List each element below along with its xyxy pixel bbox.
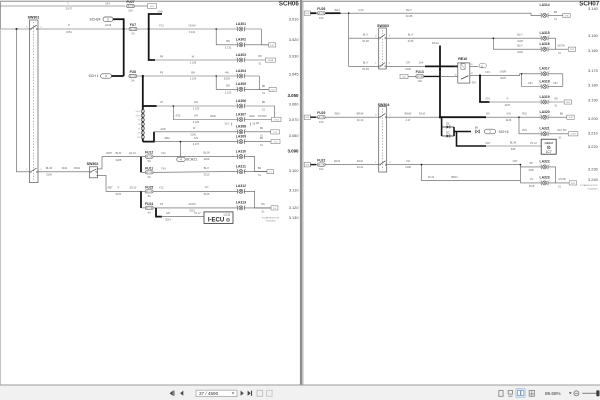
svg-text:2: 2 (540, 164, 541, 166)
svg-text:2: 2 (540, 71, 541, 73)
terminal 31 oval (479, 64, 486, 69)
svg-text:P: P (118, 185, 120, 189)
svg-text:1: 1 (549, 180, 550, 182)
connector box LA307 term (272, 117, 282, 121)
wire LA305 out (244, 88, 268, 90)
svg-text:SW301: SW301 (28, 16, 40, 20)
svg-text:HY: HY (160, 100, 164, 104)
connector box LA321 term (568, 132, 578, 136)
svg-text:RB7: RB7 (108, 186, 113, 189)
toolbar prev-page button (180, 391, 183, 396)
svg-text:GR: GR (194, 100, 198, 104)
svg-text:1: 1 (549, 164, 550, 166)
svg-text:3.050: 3.050 (288, 93, 300, 98)
lamp LA314 (540, 3, 550, 18)
svg-text:3.140: 3.140 (588, 6, 599, 11)
svg-text:RED: RED (249, 115, 254, 118)
svg-text:30-38: 30-38 (362, 39, 369, 43)
svg-text:F/CAB NON POS: F/CAB NON POS (580, 184, 598, 187)
svg-text:BN: BN (226, 39, 230, 43)
wire LA309 out (244, 141, 271, 143)
wire bus DA1A (439, 46, 441, 118)
svg-text:0.102: 0.102 (189, 30, 196, 34)
svg-text:5A: 5A (148, 159, 151, 163)
svg-text:2: 2 (540, 47, 541, 49)
svg-text:PA61: PA61 (74, 166, 81, 170)
svg-text:3108: 3108 (405, 165, 411, 169)
wire LA306 out (244, 106, 274, 117)
svg-text:3.170: 3.170 (588, 68, 599, 73)
svg-text:2: 2 (540, 36, 541, 38)
wire branch to SW303 (348, 13, 350, 66)
svg-text:S6.7: S6.7 (252, 123, 258, 126)
connector box X06 fu26 (304, 11, 310, 15)
wire bus to diodes (440, 117, 442, 136)
wire LA310 out (244, 157, 267, 172)
wire SW303 c1 in (349, 37, 379, 39)
svg-text:1: 1 (245, 73, 246, 75)
wire FU13 to RE10 (424, 75, 440, 77)
svg-text:1: 1 (549, 84, 550, 86)
wire RE10 87 out (470, 74, 541, 76)
svg-text:30-39: 30-39 (362, 67, 369, 71)
svg-text:37 / 4590: 37 / 4590 (199, 391, 219, 396)
svg-text:2.106: 2.106 (190, 61, 197, 65)
svg-text:FU22: FU22 (317, 159, 325, 163)
svg-text:1: 1 (549, 47, 550, 49)
svg-text:2.107: 2.107 (193, 142, 200, 146)
junction junction LA321 branch (518, 116, 520, 118)
svg-text:1: 1 (245, 42, 246, 44)
svg-text:E10A: E10A (224, 77, 230, 80)
svg-text:R23: R23 (522, 128, 527, 132)
lamp LA308 (236, 125, 246, 135)
svg-text:VO: VO (406, 159, 410, 163)
svg-text:31B: 31B (565, 15, 569, 17)
svg-text:FE7: FE7 (528, 82, 533, 85)
wire LA302 in branch (216, 29, 237, 45)
wire LA304 out (244, 76, 268, 89)
wire jog to LA322 (519, 165, 521, 183)
connector box X06 fu22 (304, 163, 310, 167)
svg-text:0151: 0151 (66, 30, 72, 34)
svg-text:GN: GN (194, 136, 198, 140)
svg-text:F15: F15 (485, 70, 490, 74)
wire LA303 out (244, 59, 265, 61)
wire FU13 to RE10 b (440, 75, 458, 77)
lamp LA306 (236, 99, 246, 109)
svg-text:1: 1 (245, 189, 246, 191)
svg-text:AA46: AA46 (105, 23, 112, 27)
connector box X06 fu29 (304, 115, 310, 119)
svg-text:LA304: LA304 (236, 69, 246, 73)
wire LA316 out (548, 48, 568, 50)
svg-text:3.020: 3.020 (289, 37, 300, 42)
svg-text:2-W2: 2-W2 (571, 134, 577, 136)
svg-text:GN/TB: GN/TB (558, 178, 566, 181)
wire LA305 in branch (216, 76, 237, 89)
svg-text:30-30: 30-30 (357, 118, 364, 122)
svg-text:10A: 10A (417, 79, 422, 83)
svg-text:2: 2 (236, 73, 237, 75)
svg-text:F16: F16 (485, 96, 490, 100)
toolbar first-page button (170, 391, 174, 396)
wire SW303 c2 out thin (386, 65, 425, 67)
svg-text:3.030: 3.030 (289, 54, 300, 59)
svg-text:2: 2 (236, 139, 237, 141)
svg-text:R22: R22 (522, 112, 527, 116)
connector box LA308 term (271, 130, 280, 134)
svg-text:31B: 31B (571, 183, 575, 185)
svg-text:GR: GR (166, 211, 170, 215)
wire branch low (422, 165, 521, 181)
toolbar last-page button (248, 391, 252, 396)
lamp LA307 (236, 112, 246, 122)
svg-text:SCH 1: SCH 1 (89, 74, 99, 78)
wire net P 0151 (1, 28, 30, 30)
svg-text:2-67: 2-67 (270, 45, 275, 47)
svg-text:BL/Y: BL/Y (204, 166, 210, 170)
fuse FU26 (317, 7, 325, 20)
wire SW303 c2 in (349, 65, 379, 67)
svg-text:LA312: LA312 (236, 184, 246, 188)
svg-text:S6.2: S6.2 (225, 123, 231, 126)
lamp LA319 (540, 95, 550, 105)
svg-text:3.160: 3.160 (588, 48, 599, 53)
svg-text:3209: 3209 (204, 157, 210, 161)
lamp LA315 (540, 31, 550, 41)
reference oval SCH21 num (177, 157, 186, 161)
connector box LA311 term (267, 170, 274, 174)
svg-text:1: 1 (549, 36, 550, 38)
svg-text:BB14: BB14 (451, 176, 458, 179)
wire FU22 out (326, 164, 379, 166)
wire edge to FU29 (310, 116, 316, 118)
wire net 0B2 to LA309 (154, 141, 238, 143)
svg-text:E4.15: E4.15 (129, 152, 136, 155)
svg-text:3914: 3914 (334, 8, 340, 12)
svg-text:BL/Y: BL/Y (363, 61, 369, 65)
fuse FU27 (126, 0, 134, 13)
svg-text:BN: BN (486, 113, 490, 116)
svg-text:6A: 6A (148, 211, 151, 215)
svg-text:LC7: LC7 (546, 150, 552, 154)
junction junction bus2-w2 (148, 28, 150, 30)
svg-text:V1000050: V1000050 (266, 221, 277, 223)
fuse FU13 (416, 70, 424, 83)
svg-text:2A4: 2A4 (419, 61, 424, 65)
wire edge to FU22 (310, 164, 316, 166)
svg-text:BN: BN (261, 203, 265, 206)
junction junction LA306 branch (173, 105, 175, 107)
wire SW303 c2 out thick (425, 65, 459, 67)
svg-text:LA301: LA301 (236, 22, 246, 26)
toolbar next-page button (241, 391, 244, 396)
svg-text:31B: 31B (569, 117, 573, 119)
wire SCH1 to bus1 (112, 75, 124, 77)
svg-text:0B2: 0B2 (164, 136, 170, 140)
reference oval SCH24 (103, 17, 113, 21)
svg-text:2: 2 (236, 26, 237, 28)
wire FU8 out to LA304 (137, 75, 238, 77)
wire SW304 c1 out (387, 116, 440, 118)
svg-text:GN/W: GN/W (188, 23, 196, 27)
connector box LA305 term (269, 87, 276, 91)
junction junction F16 (479, 74, 481, 76)
svg-text:LA310: LA310 (236, 149, 246, 153)
svg-text:GN/W: GN/W (188, 202, 196, 206)
junction junction w2 (16, 28, 18, 30)
wire FU27 to box (135, 5, 148, 7)
ECU box I-ECU LC12 (204, 212, 233, 224)
svg-text:BL/Y: BL/Y (408, 33, 414, 37)
wire edge to FU26 (310, 12, 316, 14)
svg-text:BL/R: BL/R (116, 151, 122, 155)
svg-text:1: 1 (245, 26, 246, 28)
svg-text:3.045: 3.045 (289, 72, 299, 77)
svg-text:3725: 3725 (408, 39, 414, 43)
svg-text:5A: 5A (131, 79, 134, 83)
wire to SCH6 (454, 131, 471, 133)
svg-text:2: 2 (236, 169, 237, 171)
svg-text:3.190: 3.190 (588, 97, 599, 102)
svg-text:1: 1 (549, 115, 550, 117)
svg-text:FU7: FU7 (130, 23, 136, 27)
svg-text:3.100: 3.100 (289, 168, 300, 173)
wire net to LA320 (486, 116, 541, 118)
svg-text:2: 2 (540, 99, 541, 101)
svg-text:FU11: FU11 (145, 166, 153, 170)
svg-text:X63A: X63A (268, 59, 274, 62)
svg-text:V1000050: V1000050 (588, 188, 599, 190)
svg-text:2A6: 2A6 (157, 10, 163, 14)
svg-text:HB: HB (529, 162, 533, 165)
svg-text:3.060: 3.060 (289, 102, 300, 107)
lamp LA310 (236, 149, 246, 159)
svg-text:3.090: 3.090 (288, 148, 300, 153)
svg-text:LA302: LA302 (236, 38, 246, 42)
toolbar background (0, 385, 600, 400)
wire FU25 out to LA312 (153, 190, 237, 192)
junction junction jog (520, 164, 522, 166)
svg-text:BL/W: BL/W (46, 166, 53, 170)
fuse FU8 (129, 70, 137, 83)
wire LA318 out (548, 86, 563, 88)
wire LA314 out (548, 14, 563, 16)
svg-text:2: 2 (540, 13, 541, 15)
switch contact SW304 c1 (379, 113, 386, 118)
fuse FU24 (145, 202, 153, 215)
wire SW301 out to SW302 (38, 171, 90, 173)
svg-text:BN: BN (563, 129, 567, 132)
svg-text:1: 1 (245, 87, 246, 89)
lamp LA305 (236, 82, 246, 92)
toolbar continuous icon (508, 391, 512, 397)
connector box LA319 term (564, 100, 571, 104)
svg-text:2: 2 (236, 189, 237, 191)
svg-text:F13: F13 (159, 23, 164, 27)
svg-text:BN: BN (226, 84, 230, 88)
svg-text:BN: BN (475, 126, 479, 129)
svg-text:P1 17: P1 17 (194, 212, 201, 215)
svg-text:BN RZ1: BN RZ1 (258, 115, 267, 118)
svg-text:3128: 3128 (506, 118, 512, 122)
reference oval SCH1 (101, 74, 112, 78)
svg-text:LA305: LA305 (236, 82, 246, 86)
svg-text:3109: 3109 (528, 169, 534, 172)
svg-text:2: 2 (236, 87, 237, 89)
page frame top border (1, 1, 300, 29)
svg-text:2.103: 2.103 (225, 90, 232, 94)
svg-text:DA1A: DA1A (432, 41, 439, 45)
svg-text:LA311: LA311 (236, 164, 246, 168)
svg-text:BN: BN (260, 137, 264, 140)
svg-text:P: P (68, 23, 70, 27)
wire net P8 to LA303 (154, 59, 238, 61)
svg-text:BN: BN (554, 11, 558, 14)
page SCH06 (left) (1, 0, 300, 385)
junction junction low branch (421, 164, 423, 166)
svg-text:BN: BN (191, 70, 195, 74)
svg-text:3.220: 3.220 (588, 144, 599, 149)
wire LA312 out (244, 191, 271, 208)
svg-text:3.010: 3.010 (289, 16, 300, 21)
svg-text:3.240: 3.240 (588, 177, 599, 182)
junction junction SW303 branch (348, 12, 350, 14)
junction junction bus3-top (142, 75, 144, 77)
lamp LA302 (236, 38, 246, 48)
pin tick S6.7 (250, 123, 252, 126)
page divider (300, 0, 302, 385)
wire bus FU25-FU24 (140, 191, 142, 208)
diode D2 (442, 132, 454, 138)
svg-text:2A4: 2A4 (105, 1, 110, 5)
svg-text:2: 2 (540, 131, 541, 133)
lamp LA304 (236, 69, 246, 79)
connector box LA316 term (568, 47, 575, 51)
svg-text:FU27: FU27 (126, 0, 134, 4)
lamp LA301 (236, 22, 246, 32)
wire bus to LA320 wire (440, 116, 486, 118)
wire drop to SW301 lower (17, 29, 30, 172)
svg-text:DA10: DA10 (419, 112, 426, 116)
svg-text:LA303: LA303 (236, 53, 246, 57)
svg-text:LA315: LA315 (540, 31, 550, 35)
svg-text:87A: 87A (472, 82, 477, 85)
svg-text:3125: 3125 (517, 39, 523, 43)
wire FU12 in (141, 156, 145, 158)
svg-text:SW302: SW302 (87, 162, 99, 166)
svg-text:FU26: FU26 (317, 7, 325, 11)
svg-text:BR/W: BR/W (357, 111, 364, 115)
toolbar two-page icon (active) (516, 389, 525, 398)
connector box LA320 term (567, 115, 574, 119)
svg-text:3106: 3106 (46, 172, 52, 176)
lamp LA323 (540, 176, 550, 186)
wire branch F16 (480, 75, 490, 102)
svg-text:1: 1 (245, 205, 246, 207)
svg-text:BN: BN (262, 101, 266, 104)
wire net to LA314 (341, 13, 542, 15)
svg-text:F11: F11 (161, 151, 166, 155)
svg-text:3208: 3208 (116, 158, 122, 162)
svg-text:2-67: 2-67 (270, 89, 275, 91)
svg-text:LA308: LA308 (236, 125, 246, 129)
lamp LA311 (236, 164, 246, 174)
svg-text:BN: BN (258, 167, 262, 170)
connector box LA314 term (563, 13, 570, 17)
svg-text:F/CAB NON POS: F/CAB NON POS (262, 216, 280, 219)
svg-text:D8: D8 (138, 124, 140, 126)
svg-text:LA307: LA307 (236, 112, 246, 116)
svg-text:10A: 10A (128, 9, 133, 13)
svg-text:10A: 10A (319, 16, 324, 20)
wire bus3 elbow to LA306 (143, 105, 157, 107)
wire net 2A4 top (1, 5, 125, 7)
svg-text:5A: 5A (148, 194, 151, 198)
wire fu13 box wire (408, 75, 416, 77)
connector box LA313 term (271, 206, 278, 210)
svg-text:SW304: SW304 (378, 103, 390, 107)
svg-text:2: 2 (540, 84, 541, 86)
svg-text:Y: Y (67, 1, 69, 5)
svg-text:GN/R: GN/R (500, 70, 507, 74)
svg-text:VO: VO (530, 178, 534, 181)
svg-text:3D11: 3D11 (61, 166, 68, 170)
svg-text:33.2B: 33.2B (406, 14, 413, 18)
svg-text:3.210: 3.210 (588, 130, 599, 135)
wire LA317 out (548, 74, 563, 87)
wire LA319 out (548, 101, 564, 103)
toolbar zoom-out button (574, 391, 579, 396)
wire LA320 out (548, 116, 567, 118)
wire net F16 to LA319 (489, 101, 542, 103)
junction junction bus-row2 (439, 65, 441, 67)
svg-text:8415: 8415 (204, 192, 210, 196)
svg-text:SCH06: SCH06 (279, 1, 300, 8)
wire branch LA306-LA307 (173, 106, 237, 120)
svg-text:LA306: LA306 (236, 99, 246, 103)
svg-text:D3: D3 (138, 133, 140, 135)
svg-text:0151: 0151 (116, 192, 122, 196)
svg-text:BL/Y: BL/Y (406, 8, 412, 12)
svg-text:2: 2 (540, 115, 541, 117)
svg-text:3214: 3214 (165, 218, 171, 222)
connector box LA323 term (569, 181, 576, 185)
lamp LA313 (236, 201, 246, 211)
svg-text:BL/W: BL/W (203, 151, 210, 155)
wire LA323 out (548, 182, 569, 184)
svg-text:E10.5: E10.5 (136, 111, 140, 113)
switch contact SW303 c1 (379, 34, 386, 39)
svg-text:2-27: 2-27 (405, 118, 411, 122)
svg-text:FU29: FU29 (317, 111, 325, 115)
fuse FU22 (317, 159, 325, 172)
svg-text:LA322: LA322 (540, 160, 550, 164)
svg-text:3128: 3128 (405, 67, 411, 71)
svg-text:F14: F14 (161, 167, 166, 171)
wire SW303 c1 out (386, 38, 541, 49)
svg-text:2: 2 (236, 154, 237, 156)
wire bus3 vertical (142, 76, 144, 142)
svg-text:DA7: DA7 (486, 142, 491, 145)
svg-text:FU25: FU25 (145, 185, 153, 189)
junction junction LA305 branch (215, 75, 217, 77)
wire LA323 wire (520, 182, 541, 184)
wire LA322 wire (520, 166, 541, 168)
svg-text:LA319: LA319 (540, 95, 550, 99)
switch SW301 (26, 16, 42, 183)
